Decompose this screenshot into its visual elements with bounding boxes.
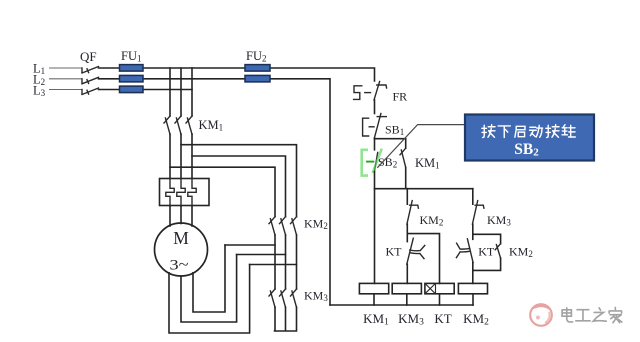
contactor KM3 main contact 3: [291, 289, 297, 307]
wire junction outer to KM2 right line: [250, 264, 297, 266]
contactor KM1 main contact 1: [164, 116, 170, 134]
wire KM3 star bar: [275, 307, 297, 331]
wire stub KM2 NC branch: [406, 189, 408, 205]
wire SB2 to junction rail: [374, 172, 376, 284]
wire KM1 out A to FR: [169, 134, 171, 178]
FR heater element 3: [188, 179, 196, 207]
contactor KM1 main contact 3: [186, 116, 192, 134]
contactor KM2 NC contact: [407, 201, 419, 225]
wire KM1 coil to bus: [373, 294, 375, 305]
coil KT with X box: [425, 283, 454, 293]
wire junction horizontal: [375, 188, 473, 190]
wire FR to SB1: [374, 100, 376, 114]
svg-text:FU2: FU2: [246, 49, 266, 64]
motor M circle: [155, 223, 208, 276]
svg-text:KM1: KM1: [199, 118, 224, 133]
wire FR to motor 3: [191, 206, 193, 226]
wire KT left down: [406, 264, 408, 283]
wire L2 lead: [49, 78, 82, 80]
svg-text:KM1: KM1: [415, 156, 440, 171]
wire KM2 coil to bus: [472, 294, 474, 305]
pushbutton SB2 (start, NO): [367, 152, 378, 171]
svg-text:FU1: FU1: [121, 49, 141, 64]
coil KM1: [359, 283, 388, 293]
svg-text:KM2: KM2: [463, 311, 489, 328]
wire motor U loop outer: [169, 265, 250, 334]
wire phase drop B: [180, 68, 182, 116]
svg-text:FR: FR: [393, 90, 408, 104]
wire KT right down: [472, 263, 474, 284]
wire KM3 NC down: [472, 224, 474, 239]
wire KM2 aux bridge top: [473, 234, 501, 243]
wire junction inner to KM2 left line: [225, 244, 275, 246]
svg-text:SB1: SB1: [385, 123, 404, 138]
wire stub KM3 NC branch: [472, 189, 474, 205]
wire motor U loop inner: [193, 245, 225, 312]
callout pointer line: [377, 125, 465, 168]
svg-text:KM2: KM2: [509, 245, 533, 260]
watermark text 电工之家: [562, 308, 622, 323]
svg-text:KT: KT: [386, 245, 403, 259]
contactor KM3 main contact 2: [280, 289, 286, 307]
callout Chinese text line1 : 按下启动按钮: [482, 125, 575, 138]
wire SB1 to SB2: [374, 138, 376, 150]
wire L3 lead: [49, 89, 82, 91]
wire motor U loop middle: [181, 255, 237, 323]
fuse FU1 element 1: [120, 65, 144, 72]
contactor KM3 main contact 1: [269, 289, 275, 307]
FR heater element 1: [166, 179, 174, 207]
fuse FU1 element 3: [120, 86, 144, 93]
contactor KM2 aux NO contact: [495, 244, 500, 259]
wire branch A to KM2 left: [170, 167, 275, 217]
contactor KM1 main contact 2: [175, 116, 181, 134]
FR heater element 2: [177, 179, 185, 207]
breaker QF pole 1: [82, 67, 99, 74]
wire junction middle to KM2 mid line: [237, 254, 286, 256]
wire KM2 aux bridge bottom: [473, 258, 500, 270]
callout blue box: [465, 115, 594, 161]
wire KM2 NC down: [406, 224, 408, 241]
wire branch B to KM2 right: [181, 145, 297, 217]
contactor KM2 main contact 1: [269, 217, 275, 235]
svg-text:QF: QF: [80, 49, 97, 64]
svg-text:KM2: KM2: [304, 217, 328, 232]
contactor KM3 NC contact: [472, 201, 484, 225]
svg-text:KM2: KM2: [420, 213, 444, 228]
wire KM2 to KM3 line 1: [274, 235, 276, 289]
wire phase L3 from QF: [99, 89, 193, 91]
svg-text:KM1: KM1: [363, 311, 389, 328]
thermal relay FR heater box: [160, 179, 210, 206]
wire KM3 coil to bus: [406, 294, 408, 305]
fuse FU2 element 1: [245, 65, 270, 72]
wire FR to motor 1: [169, 206, 171, 226]
wire phase L2 from QF to left rail bend: [99, 79, 331, 305]
svg-text:KT: KT: [434, 311, 451, 326]
watermark logo: [530, 304, 552, 326]
wire KM2 to KM3 line 2: [285, 235, 287, 289]
svg-text:KM3: KM3: [398, 311, 424, 328]
svg-text:KM3: KM3: [487, 213, 511, 228]
wire phase drop C: [191, 68, 193, 116]
wire phase L1 from QF to control bend: [99, 68, 375, 81]
svg-text:M: M: [173, 228, 189, 248]
timer KT delayed contact (right): [456, 239, 473, 263]
fuse FU2 element 2: [245, 75, 270, 82]
contactor KM2 main contact 3: [291, 217, 297, 235]
timer KT delayed contact (left): [407, 238, 425, 264]
wire KM1 out B to FR: [180, 134, 182, 178]
fuse FU1 element 2: [120, 75, 144, 82]
coil KM2: [458, 283, 487, 293]
wire branch C to KM2 middle: [192, 156, 286, 217]
svg-text:KT: KT: [478, 245, 495, 259]
SB2 green highlight: [362, 149, 382, 176]
contactor KM1 aux contact: [400, 148, 406, 167]
svg-text:KM3: KM3: [304, 289, 328, 304]
wire KM1 out C to FR: [191, 134, 193, 178]
wire KM1 aux down: [405, 167, 407, 188]
wire phase drop A: [169, 68, 171, 116]
svg-text:3~: 3~: [170, 258, 189, 274]
breaker QF pole 2: [82, 77, 99, 84]
wire branch to KM1 aux: [375, 139, 406, 149]
wire bottom bus: [330, 304, 473, 306]
pushbutton SB1 (stop, NC): [363, 114, 387, 139]
breaker QF pole 3: [82, 88, 99, 95]
coil KM3: [392, 283, 421, 293]
wire branch to KT coil: [407, 234, 439, 284]
thermal relay FR NC contact: [354, 82, 387, 101]
wire FR to motor 2: [180, 206, 182, 224]
contactor KM2 main contact 2: [280, 217, 286, 235]
wire L1 lead: [49, 67, 82, 69]
wire KM2 to KM3 line 3: [296, 235, 298, 289]
wire KT coil to bus: [439, 294, 441, 305]
